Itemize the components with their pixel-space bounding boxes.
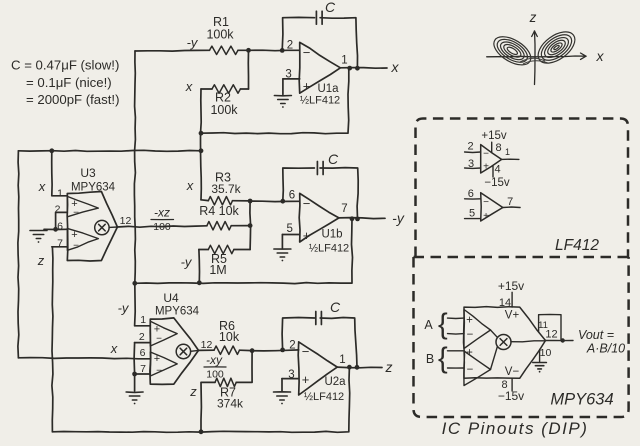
- svg-text:7: 7: [57, 238, 63, 250]
- LF412 pinout op-amp 1: [465, 130, 519, 189]
- wire z bus vertical to U3 pin7: [52, 247, 53, 432]
- Lorenz attractor left lobe spirals: [489, 31, 535, 71]
- svg-text:-y: -y: [118, 301, 130, 316]
- svg-text:−: −: [303, 45, 311, 60]
- svg-text:5: 5: [286, 223, 292, 235]
- svg-text:−: −: [156, 334, 162, 345]
- Lorenz attractor right lobe spirals: [533, 26, 581, 70]
- wire U2a output: [337, 366, 382, 369]
- wire U1b output: [339, 218, 385, 219]
- wire U3 output to R4: [117, 226, 206, 227]
- resistor R5: [208, 245, 234, 253]
- label B with brace: [426, 343, 448, 375]
- label -xy/100 fraction: [204, 353, 226, 381]
- junction U1b out 1: [350, 216, 355, 221]
- junction -y bus / -y line: [132, 281, 137, 286]
- svg-text:+: +: [302, 372, 310, 387]
- svg-text:V−: V−: [505, 366, 520, 378]
- svg-text:-y: -y: [392, 210, 405, 226]
- svg-text:-y: -y: [187, 35, 199, 50]
- svg-text:1: 1: [505, 147, 510, 157]
- junction U3 pin2/pin6: [53, 227, 58, 232]
- wire to U1b pin6: [250, 200, 300, 203]
- junction U1b pin6 feedback tap: [280, 199, 285, 204]
- wire U2a cap left: [282, 318, 315, 350]
- wire -y return line: [135, 219, 353, 284]
- svg-text:x: x: [110, 341, 118, 356]
- wire to U2a pin2: [252, 350, 299, 351]
- wire left x bus horizontal: [18, 150, 201, 151]
- svg-text:100k: 100k: [206, 28, 234, 42]
- wire R7 left to z bus: [201, 382, 215, 431]
- svg-text:x: x: [596, 48, 605, 64]
- svg-text:z: z: [37, 253, 45, 268]
- op-amp U1b triangle: [299, 193, 339, 242]
- wire U4 ground stem: [134, 374, 136, 391]
- multiplier U4 MPY634 body: [150, 318, 199, 385]
- wire U4 pin2-pin7 link: [133, 343, 136, 374]
- dashed box LF412 pinout (top/left/right): [416, 119, 629, 258]
- formula text C values: [11, 58, 119, 108]
- svg-text:+: +: [466, 315, 473, 327]
- capacitor C (U1b feedback): [317, 151, 339, 175]
- wire R3 right lead: [233, 200, 251, 202]
- svg-text:+15v: +15v: [481, 130, 507, 142]
- ground U4: [126, 392, 143, 404]
- svg-text:A·B/10: A·B/10: [586, 342, 625, 356]
- op-amp U2a triangle: [298, 342, 337, 395]
- svg-text:1: 1: [341, 55, 347, 67]
- svg-text:3: 3: [468, 158, 474, 170]
- svg-text:10: 10: [540, 347, 552, 359]
- svg-text:−: −: [483, 149, 489, 160]
- ground MPY634 pinout: [533, 363, 547, 373]
- svg-text:U2a: U2a: [324, 376, 346, 388]
- svg-text:1: 1: [57, 188, 63, 200]
- svg-text:−: −: [73, 208, 79, 219]
- wire U1b ground stem: [281, 235, 283, 249]
- MPY634 pinout output wire: [546, 338, 574, 342]
- svg-text:7: 7: [140, 363, 146, 375]
- svg-text:12: 12: [120, 215, 132, 227]
- svg-text:MPY634: MPY634: [71, 182, 116, 194]
- svg-text:100: 100: [153, 221, 171, 233]
- junction U2a out 2: [355, 365, 360, 370]
- junction x bus / U3 pin1: [49, 148, 54, 153]
- svg-text:6: 6: [468, 188, 474, 200]
- capacitor C (U2a feedback): [316, 299, 341, 325]
- wire R5 right lead: [234, 249, 250, 251]
- svg-text:V+: V+: [505, 310, 520, 322]
- svg-text:x: x: [38, 179, 46, 194]
- junction U4 pin7/ground: [132, 372, 137, 377]
- svg-text:4: 4: [494, 164, 500, 176]
- Lorenz attractor center crossing scribble: [520, 58, 548, 64]
- svg-text:+: +: [154, 353, 160, 365]
- svg-text:+: +: [483, 211, 489, 222]
- wire U4 pin7: [135, 373, 151, 375]
- wire R7 right vertical: [236, 351, 252, 383]
- MPY634 pinout X circle: [491, 330, 546, 370]
- wire R6 right lead: [240, 349, 253, 351]
- ground U1b: [274, 249, 291, 261]
- MPY634 pinout input lines: [448, 315, 474, 377]
- svg-text:6: 6: [140, 347, 146, 359]
- wire R5 left lead: [199, 249, 208, 251]
- svg-text:C = 0.47μF (slow!): C = 0.47μF (slow!): [11, 58, 119, 73]
- wire U1b cap left: [283, 168, 315, 201]
- multiplier U3 labels: [55, 166, 132, 252]
- svg-text:U4: U4: [163, 291, 179, 305]
- svg-text:14: 14: [499, 297, 511, 309]
- MPY634 pinout pin14 +15v: [498, 279, 524, 322]
- svg-text:MPY634: MPY634: [155, 306, 200, 318]
- node U1a pin2 feedback tap: [280, 48, 285, 53]
- svg-text:+: +: [466, 347, 473, 359]
- wire U4 pin2: [135, 342, 151, 344]
- multiplier U3 MPY634 body: [67, 192, 117, 262]
- wire R5 left vertical to -y line: [198, 250, 201, 283]
- multiplier U4 input triangle B: [150, 352, 177, 376]
- resistor R6: [214, 346, 240, 354]
- svg-text:+15v: +15v: [498, 279, 524, 293]
- label -xz/100 fraction: [151, 206, 174, 234]
- junction R5 / -y line: [197, 280, 202, 285]
- svg-text:C: C: [325, 0, 336, 15]
- MPY634 pinout body: [464, 307, 546, 379]
- svg-text:+: +: [303, 228, 311, 243]
- wire x to U4 pin6: [18, 358, 150, 359]
- svg-text:374k: 374k: [217, 397, 244, 411]
- LF412 pinout op-amp 2: [465, 188, 520, 222]
- multiplier U4 labels: [139, 291, 213, 377]
- MPY634 pinout triangle B: [464, 351, 491, 386]
- svg-text:U1a: U1a: [317, 83, 339, 95]
- svg-text:B: B: [426, 352, 434, 366]
- svg-text:-y: -y: [181, 255, 193, 270]
- capacitor C (U1a feedback): [316, 0, 336, 24]
- svg-text:2: 2: [139, 331, 145, 343]
- wire R2 right lead: [240, 88, 248, 90]
- wire U2a ground stem: [281, 379, 283, 391]
- wire U2a cap right: [320, 318, 357, 368]
- multiplier U4 X circle: [176, 344, 198, 358]
- junction U2a out 1: [347, 365, 352, 370]
- svg-text:35.7k: 35.7k: [211, 182, 241, 196]
- svg-text:{: {: [438, 309, 448, 341]
- node R1/R2 junction: [246, 48, 251, 53]
- wire R2 right vertical: [247, 50, 249, 89]
- wire R2 left lead: [201, 88, 212, 90]
- wire -y bus vertical: [134, 51, 150, 326]
- wire left x bus vertical: [17, 151, 20, 358]
- wire U1a output feedback loop: [201, 68, 349, 133]
- svg-text:= 0.1μF (nice!): = 0.1μF (nice!): [26, 75, 112, 90]
- svg-text:−: −: [303, 196, 311, 211]
- junction x bus / U1a loop: [199, 131, 204, 136]
- svg-text:U1b: U1b: [321, 229, 342, 241]
- label A with brace: [424, 309, 448, 341]
- svg-text:−: −: [73, 241, 79, 252]
- svg-text:2: 2: [289, 339, 295, 351]
- svg-text:R4 10k: R4 10k: [199, 204, 239, 218]
- resistor R7: [215, 378, 236, 386]
- svg-text:-xz: -xz: [154, 206, 170, 220]
- svg-text:+: +: [303, 79, 311, 94]
- op-amp U2a pin labels: [288, 339, 346, 403]
- svg-text:10k: 10k: [219, 330, 240, 344]
- dashed box MPY634 pinout: [414, 257, 629, 417]
- multiplier U4 input triangle A: [150, 321, 177, 346]
- MPY634 pinout pin11/12 feedback box: [538, 314, 561, 340]
- svg-text:100: 100: [206, 369, 224, 381]
- wire x bus vertical: [200, 89, 203, 200]
- svg-text:1: 1: [140, 314, 146, 326]
- svg-text:½LF412: ½LF412: [300, 95, 340, 107]
- svg-text:½LF412: ½LF412: [309, 243, 349, 255]
- svg-text:= 2000pF (fast!): = 2000pF (fast!): [26, 92, 119, 107]
- resistor R2: [212, 85, 240, 93]
- svg-text:1M: 1M: [209, 263, 226, 277]
- wire U3 pin6 to ground: [44, 228, 67, 230]
- svg-text:6: 6: [57, 221, 63, 233]
- svg-text:{: {: [438, 343, 448, 375]
- svg-text:−: −: [467, 364, 474, 376]
- svg-text:IC Pinouts (DIP): IC Pinouts (DIP): [442, 419, 589, 438]
- svg-text:12: 12: [545, 329, 557, 341]
- svg-text:x: x: [391, 59, 400, 75]
- Lorenz attractor sketch axes: [487, 10, 605, 85]
- multiplier U3 X circle: [95, 220, 118, 234]
- svg-text:−: −: [467, 329, 474, 341]
- svg-text:2: 2: [467, 141, 473, 153]
- svg-text:−15v: −15v: [484, 177, 510, 189]
- MPY634 pinout triangle A: [464, 310, 491, 349]
- ground U3: [30, 231, 47, 243]
- svg-text:x: x: [185, 79, 193, 94]
- svg-text:LF412: LF412: [555, 237, 599, 254]
- svg-text:7: 7: [341, 203, 347, 215]
- wire R4 right lead: [231, 225, 250, 227]
- svg-text:12: 12: [201, 339, 213, 351]
- wire U1a cap left: [282, 17, 314, 50]
- op-amp U1a triangle: [299, 42, 340, 93]
- MPY634 pinout pin8 -15v: [498, 366, 524, 403]
- dashed divider line between pinout boxes: [414, 256, 629, 259]
- op-amp U1b pin labels: [286, 190, 349, 255]
- junction U1b out 2: [355, 217, 360, 222]
- wire U1b cap right: [320, 168, 358, 219]
- wire U2a pin3: [282, 378, 299, 380]
- wire x to U3 pin1: [52, 151, 68, 196]
- wire R1 to U1a pin2: [238, 49, 300, 52]
- svg-text:2: 2: [287, 39, 293, 51]
- svg-text:z: z: [189, 384, 197, 399]
- wire U1a output: [340, 67, 387, 70]
- junction R4 right: [248, 223, 253, 228]
- junction z bus / R7: [199, 429, 204, 434]
- junction R3 right: [248, 199, 253, 204]
- junction U1a out 1: [347, 66, 352, 71]
- svg-text:−: −: [483, 197, 489, 208]
- wire U1b pin5: [282, 234, 299, 236]
- junction R6/R7/U2a: [250, 348, 255, 353]
- svg-text:5: 5: [469, 208, 475, 220]
- wire -y to R1: [135, 49, 210, 52]
- svg-text:U3: U3: [80, 166, 96, 180]
- wire R3/R4/R5 right vertical: [249, 201, 252, 250]
- MPY634 pinout pin10 ground: [540, 347, 552, 362]
- svg-text:7: 7: [507, 196, 513, 208]
- resistor R1: [210, 46, 239, 54]
- wire R3 left lead: [201, 199, 208, 202]
- svg-text:z: z: [529, 10, 537, 25]
- wire U4 output to R6: [199, 349, 215, 351]
- ground U2a: [274, 392, 291, 405]
- wire U3 pin7: [52, 246, 68, 248]
- junction U2a pin2 feedback tap: [280, 348, 285, 353]
- resistor R3: [208, 197, 232, 205]
- multiplier U3 input triangle B: [67, 228, 98, 250]
- svg-text:MPY634: MPY634: [550, 391, 613, 409]
- multiplier U3 input triangle A: [67, 196, 98, 216]
- svg-text:−: −: [302, 344, 310, 359]
- label Vout = A.B/10: [578, 328, 625, 356]
- wire U1a ground stem: [282, 79, 284, 95]
- svg-text:−: −: [156, 366, 162, 377]
- wire U1a pin3: [283, 78, 300, 80]
- wire U3 pin2 to ground link: [56, 212, 68, 229]
- svg-text:−15v: −15v: [498, 389, 524, 403]
- svg-text:+: +: [71, 229, 77, 241]
- junction x bus / left bus: [199, 148, 204, 153]
- svg-text:z: z: [385, 359, 393, 375]
- svg-text:Vout =: Vout =: [578, 328, 614, 342]
- svg-text:1: 1: [339, 354, 345, 366]
- svg-text:C: C: [328, 151, 339, 167]
- ground U1a: [274, 96, 291, 108]
- svg-text:x: x: [186, 178, 194, 193]
- resistor R4: [207, 222, 231, 230]
- wire U1a cap right: [320, 18, 357, 68]
- svg-text:8: 8: [495, 142, 501, 154]
- wire z return bus: [52, 367, 349, 432]
- svg-text:½LF412: ½LF412: [304, 391, 344, 403]
- svg-text:A: A: [424, 318, 433, 332]
- svg-text:+: +: [483, 161, 489, 172]
- svg-text:100k: 100k: [210, 103, 238, 117]
- op-amp U1a pin labels: [285, 39, 347, 106]
- svg-text:C: C: [330, 299, 341, 315]
- junction U1a out 2: [355, 66, 360, 71]
- svg-text:6: 6: [289, 190, 295, 202]
